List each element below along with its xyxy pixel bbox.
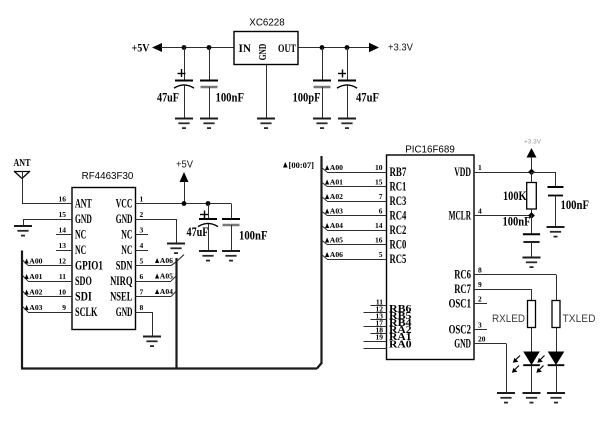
svg-text:100nF: 100nF xyxy=(239,229,268,243)
svg-text:A05: A05 xyxy=(160,272,173,281)
LED D2 (TX) xyxy=(536,352,564,394)
capacitor C6 100nF xyxy=(222,219,240,251)
svg-text:ANT: ANT xyxy=(75,196,92,210)
wire U3 RB5 stub xyxy=(364,312,387,314)
svg-text:RC0: RC0 xyxy=(390,237,407,251)
wire OUT to +3.3V rail xyxy=(298,47,370,49)
chip U3 lower-left pin names xyxy=(389,304,412,350)
ground (U2 pin15) xyxy=(14,226,32,236)
capacitor C1 47uF (polarized) xyxy=(174,48,194,119)
ground (C1) xyxy=(175,119,193,129)
capacitor C3 100pF xyxy=(313,48,331,119)
wire U2 pin 6 to middle bus xyxy=(136,275,178,282)
svg-text:NIRQ: NIRQ xyxy=(110,274,132,288)
ground (U2 pin2) xyxy=(167,244,185,254)
svg-text:A02: A02 xyxy=(29,288,42,297)
resistor RXLED xyxy=(528,301,536,352)
svg-text:8: 8 xyxy=(478,266,482,275)
junction C5 tap xyxy=(206,201,211,206)
svg-text:RC4: RC4 xyxy=(390,208,407,222)
capacitor C2 100nF xyxy=(200,48,218,119)
svg-text:OUT: OUT xyxy=(278,41,296,55)
wire pin 15 GND to ground xyxy=(23,219,72,226)
svg-text:GND: GND xyxy=(257,44,269,61)
wire U3 VDD to +3.3V xyxy=(474,172,532,174)
wire U3 RB4 stub xyxy=(371,319,387,321)
net label A06 xyxy=(325,250,343,259)
svg-text:NC: NC xyxy=(121,243,132,257)
svg-text:2: 2 xyxy=(478,295,482,304)
svg-text:6: 6 xyxy=(379,207,383,216)
ground (U2 pin8) xyxy=(143,337,161,347)
svg-text:A01: A01 xyxy=(29,272,42,281)
svg-text:VCC: VCC xyxy=(116,196,133,210)
wire pin 13 NC stub xyxy=(56,250,72,252)
net label A04 xyxy=(155,287,173,296)
svg-text:47uF: 47uF xyxy=(187,225,209,239)
net label A00 xyxy=(25,257,43,266)
ground (C3) xyxy=(313,119,331,129)
wire U3 OSC1 stub xyxy=(474,303,487,305)
wire bus to U3 RC1 xyxy=(322,182,387,187)
ground (C5) xyxy=(199,251,217,261)
svg-text:RC1: RC1 xyxy=(390,179,407,193)
svg-text:15: 15 xyxy=(375,178,383,187)
wire bus to U3 RC0 xyxy=(322,240,387,245)
power +3.3V (top rail) xyxy=(369,43,413,54)
svg-text:7: 7 xyxy=(379,192,383,201)
svg-text:3: 3 xyxy=(140,226,144,235)
svg-text:4: 4 xyxy=(140,241,144,250)
wire U2 pin 11 to left bus xyxy=(22,275,72,282)
svg-text:A06: A06 xyxy=(330,250,343,259)
wire U1 GND pin down xyxy=(266,65,268,119)
svg-text:[00:07]: [00:07] xyxy=(289,161,315,170)
svg-text:A04: A04 xyxy=(330,221,343,230)
ground (D2) xyxy=(547,393,565,403)
ground (U1 GND) xyxy=(257,119,275,129)
svg-text:A06: A06 xyxy=(160,256,173,265)
wire ANT to pin 16 xyxy=(22,203,72,205)
antenna ANT xyxy=(14,157,31,204)
svg-text:19: 19 xyxy=(376,333,384,342)
svg-text:RC7: RC7 xyxy=(454,282,471,296)
svg-text:A03: A03 xyxy=(330,207,343,216)
net label A02 xyxy=(325,192,343,201)
net label A01 xyxy=(25,272,43,281)
junction MCLR xyxy=(528,212,535,219)
svg-text:SDI: SDI xyxy=(75,289,92,303)
capacitor C7 100nF xyxy=(548,187,564,227)
bus name label [00:07] xyxy=(283,161,314,170)
svg-text:10: 10 xyxy=(59,288,67,297)
svg-text:A03: A03 xyxy=(29,303,42,312)
svg-text:15: 15 xyxy=(59,210,67,219)
svg-text:16: 16 xyxy=(375,236,383,245)
bus bottom horizontal xyxy=(21,367,317,369)
svg-text:RC6: RC6 xyxy=(454,267,471,281)
net label A05 xyxy=(155,272,173,281)
wire bus to U3 RC2 xyxy=(322,226,387,231)
svg-text:VDD: VDD xyxy=(454,165,471,179)
capacitor C8 100nF xyxy=(523,216,540,258)
svg-text:SDN: SDN xyxy=(116,258,133,272)
svg-text:A02: A02 xyxy=(330,192,343,201)
wire U3 MCLR xyxy=(474,215,532,217)
wire U3 RA2 stub xyxy=(364,326,387,328)
svg-text:14: 14 xyxy=(59,226,67,235)
svg-text:TXLED: TXLED xyxy=(563,313,596,325)
power +5V (top rail) xyxy=(132,43,163,55)
svg-text:GND: GND xyxy=(116,212,133,226)
svg-text:GND: GND xyxy=(75,212,92,226)
wire U2 pin 12 to left bus xyxy=(22,260,72,266)
svg-text:GND: GND xyxy=(116,305,133,319)
svg-text:PIC16F689: PIC16F689 xyxy=(405,145,455,156)
svg-text:A05: A05 xyxy=(330,236,343,245)
wire U3 RA1 stub xyxy=(371,333,387,335)
wire +3.3V to C7 xyxy=(532,172,556,174)
net label A03 xyxy=(25,303,43,312)
bus right vertical xyxy=(320,156,322,364)
wire U2 pin 7 to middle bus xyxy=(136,291,178,297)
junction VDD/+3.3V xyxy=(528,169,535,176)
wire U3 GND pin 20 to ground xyxy=(474,344,507,394)
svg-text:4: 4 xyxy=(478,207,482,216)
capacitor C5 47uF (polarized) xyxy=(198,204,218,252)
junction C3 tap xyxy=(320,45,325,50)
wire bus to U3 RC4 xyxy=(322,211,387,216)
svg-text:OSC1: OSC1 xyxy=(449,296,471,310)
net label A01 xyxy=(325,178,343,187)
svg-text:NC: NC xyxy=(75,227,86,241)
wire U2 pin 5 to middle bus xyxy=(136,255,185,266)
chip U3 PIC16F689 xyxy=(387,145,475,360)
svg-text:NSEL: NSEL xyxy=(110,289,132,303)
svg-text:SDO: SDO xyxy=(75,274,92,288)
svg-text:100nF: 100nF xyxy=(216,91,245,105)
svg-text:RXLED: RXLED xyxy=(492,313,525,325)
resistor R1 100K xyxy=(527,172,537,216)
wire VCC pin 1 rail xyxy=(136,203,232,205)
svg-text:GPIO1: GPIO1 xyxy=(75,258,103,272)
svg-text:7: 7 xyxy=(140,288,144,297)
svg-text:14: 14 xyxy=(375,221,383,230)
svg-text:A01: A01 xyxy=(330,178,343,187)
capacitor C6 100nF lead from rail xyxy=(231,204,233,220)
junction +5V/VCC xyxy=(182,201,187,206)
chip U3 right pin names xyxy=(449,165,472,350)
svg-text:47uF: 47uF xyxy=(356,91,379,105)
wire U3 RC6 to TXLED xyxy=(474,275,557,301)
net label A02 xyxy=(25,288,43,297)
wire pin 14 NC stub xyxy=(56,234,72,236)
svg-text:1: 1 xyxy=(140,195,144,204)
svg-text:5: 5 xyxy=(140,257,144,266)
wire bus to U3 RB7 xyxy=(322,168,387,173)
chip U2 RF4463F30 xyxy=(72,171,136,330)
net label A00 xyxy=(325,163,343,172)
wire +5V rail to IN xyxy=(161,47,234,49)
ground (C7) xyxy=(547,227,565,237)
svg-text:100nF: 100nF xyxy=(561,198,590,212)
svg-text:16: 16 xyxy=(59,195,67,204)
svg-text:RC5: RC5 xyxy=(390,252,407,266)
power +3.3V (PIC section) xyxy=(524,139,542,173)
svg-text:+5V: +5V xyxy=(176,159,193,171)
svg-text:47uF: 47uF xyxy=(157,91,179,105)
wire U2 pin 10 to left bus xyxy=(22,291,72,297)
svg-text:+5V: +5V xyxy=(132,43,151,55)
ground (U3 pin20) xyxy=(497,393,515,403)
wire U2 pin 2 GND to ground xyxy=(136,219,177,244)
svg-text:ANT: ANT xyxy=(14,157,31,169)
bus left vertical xyxy=(21,251,23,369)
resistor TXLED xyxy=(552,301,560,352)
svg-text:OSC2: OSC2 xyxy=(449,322,471,336)
wire U3 OSC2 stub xyxy=(474,329,487,331)
svg-text:12: 12 xyxy=(59,257,67,266)
svg-text:+3.3V: +3.3V xyxy=(388,43,413,54)
wire U3 RB6 stub xyxy=(371,305,387,307)
svg-text:8: 8 xyxy=(140,303,144,312)
svg-text:GND: GND xyxy=(454,336,471,350)
svg-text:9: 9 xyxy=(62,303,66,312)
LED D1 (RX) xyxy=(512,352,540,394)
ground (C8) xyxy=(523,258,541,268)
svg-text:RC2: RC2 xyxy=(390,223,407,237)
svg-text:SCLK: SCLK xyxy=(75,305,98,319)
svg-text:100pF: 100pF xyxy=(293,91,321,105)
svg-text:6: 6 xyxy=(140,272,144,281)
wire bus to U3 RC3 xyxy=(322,197,387,202)
svg-text:NC: NC xyxy=(75,243,86,257)
svg-text:RF4463F30: RF4463F30 xyxy=(82,171,134,182)
net label A06 xyxy=(155,256,173,265)
svg-text:RA0: RA0 xyxy=(389,339,412,350)
svg-text:5: 5 xyxy=(379,250,383,259)
svg-text:20: 20 xyxy=(478,335,486,344)
ground (C2) xyxy=(200,119,218,129)
power +5V (RF section) xyxy=(176,159,193,204)
capacitor C4 47uF (polarized) xyxy=(337,48,357,119)
ground (C4) xyxy=(338,119,356,129)
wire U3 RC7 to RXLED xyxy=(474,289,532,301)
ground (C6) xyxy=(222,251,240,261)
wire pin 3 NC stub xyxy=(136,234,149,236)
svg-text:1: 1 xyxy=(478,163,482,172)
svg-text:A00: A00 xyxy=(29,257,42,266)
junction C1 tap xyxy=(182,45,187,50)
capacitor C7 100nF lead xyxy=(555,172,557,187)
svg-text:100nF: 100nF xyxy=(503,215,531,229)
svg-text:10: 10 xyxy=(375,163,383,172)
svg-text:+3.3V: +3.3V xyxy=(524,139,542,146)
svg-text:9: 9 xyxy=(478,280,482,289)
svg-text:NC: NC xyxy=(121,227,132,241)
bus middle vertical xyxy=(175,258,177,369)
svg-text:IN: IN xyxy=(239,41,252,55)
net label A03 xyxy=(325,207,343,216)
svg-text:RB7: RB7 xyxy=(390,165,407,179)
svg-text:13: 13 xyxy=(59,241,67,250)
svg-text:A00: A00 xyxy=(330,163,343,172)
svg-text:RC3: RC3 xyxy=(390,194,407,208)
wire pin 4 NC stub xyxy=(136,250,149,252)
wire U3 RA0 stub xyxy=(364,341,387,343)
svg-text:MCLR: MCLR xyxy=(449,208,472,222)
svg-text:2: 2 xyxy=(140,210,144,219)
regulator U1 XC6228 xyxy=(234,18,298,65)
wire U2 pin 9 to left bus xyxy=(22,306,72,313)
svg-text:100K: 100K xyxy=(503,189,527,203)
junction C4 tap xyxy=(345,45,350,50)
svg-text:A04: A04 xyxy=(160,287,173,296)
svg-text:3: 3 xyxy=(478,321,482,330)
net label A05 xyxy=(325,236,343,245)
svg-text:11: 11 xyxy=(59,272,66,281)
net label A04 xyxy=(325,221,343,230)
ground (D1) xyxy=(523,393,541,403)
junction C2 tap xyxy=(207,45,212,50)
wire U3 RA0 stub xyxy=(364,348,387,350)
svg-text:XC6228: XC6228 xyxy=(249,18,285,29)
bus corner diagonal xyxy=(317,363,322,369)
wire bus to U3 RC5 xyxy=(322,255,387,260)
wire U2 pin 8 GND to ground xyxy=(136,312,153,337)
